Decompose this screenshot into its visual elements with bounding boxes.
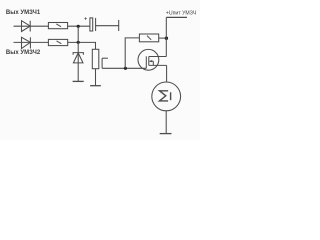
supply rail top bar — [166, 16, 187, 18]
transistor VT1 (MOSFET) — [138, 49, 167, 70]
wire: R2 to node B and on to trimmer — [68, 42, 96, 49]
resistor R4 — [139, 34, 158, 42]
resistor R1 — [48, 23, 67, 29]
wire: C1 to terminal bar — [96, 25, 119, 27]
capacitor C1 (polarized) — [84, 17, 95, 31]
wire: D1 anode lead — [14, 25, 49, 27]
wire: motor to ground — [165, 111, 167, 134]
ground (zener) — [73, 80, 84, 82]
wire: R4 right lead to supply rail — [159, 37, 167, 39]
node D junction dot (rail) — [165, 37, 168, 40]
wire: supply rail — [165, 17, 167, 56]
diode VD1 — [22, 21, 31, 32]
wire: R4 left lead down to gate node — [125, 38, 139, 68]
diode VD2 — [22, 37, 31, 48]
svg-text:+Uпит УМЗЧ: +Uпит УМЗЧ — [166, 10, 197, 16]
wire: R3 bottom to ground — [95, 69, 97, 86]
wire: tap to gate (gate net) — [102, 67, 146, 69]
ground (motor) — [160, 133, 172, 135]
node: +Upit UMZCH supply label — [166, 10, 197, 16]
resistor R2 — [48, 39, 67, 45]
node A junction dot — [77, 25, 80, 28]
wire: R1 to node A — [68, 25, 90, 27]
node B junction dot — [77, 41, 80, 44]
ground (trimmer) — [90, 85, 101, 87]
node: output 2 label — [6, 50, 41, 56]
zener diode VD3 — [73, 53, 83, 63]
wire: node B down to zener — [77, 42, 79, 81]
trimmer tap — [102, 58, 108, 68]
wire: D2 anode lead — [14, 41, 49, 43]
trimmer resistor R3 — [92, 49, 99, 68]
svg-text:Вых УМЗЧ2: Вых УМЗЧ2 — [6, 50, 41, 56]
motor M1 — [152, 82, 181, 111]
wire: node A to node B — [77, 26, 79, 42]
wire: source down to motor — [166, 65, 168, 82]
svg-text:Вых УМЗЧ1: Вых УМЗЧ1 — [6, 10, 41, 16]
terminal bar (to common wire) — [118, 20, 120, 31]
node: output 1 label — [6, 10, 41, 16]
node C junction dot (gate) — [124, 67, 127, 70]
